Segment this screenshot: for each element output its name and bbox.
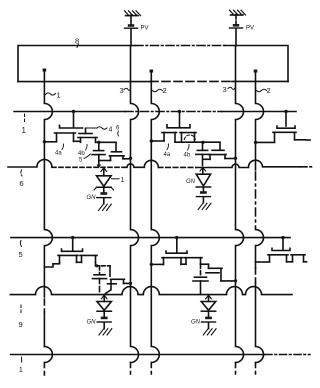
wire partial2 source to column 3 [256, 261, 270, 263]
label ~2 (column 2) [152, 86, 166, 95]
svg-text:6: 6 [116, 126, 120, 132]
ground cell1 [99, 204, 112, 210]
label 6 drive transistor leader cell1 [116, 126, 120, 137]
column PV1 wire [131, 46, 139, 375]
svg-text:5: 5 [79, 158, 83, 164]
column 3 wire [256, 71, 264, 374]
ground cell2 [198, 203, 211, 209]
capacitor cell3 [93, 266, 107, 292]
svg-text:GN: GN [87, 195, 97, 201]
capacitor cell4 [193, 264, 208, 294]
driver box 8 [18, 37, 288, 82]
svg-text:3: 3 [223, 85, 227, 94]
battery GN cell3 [87, 317, 112, 329]
wire node cell1 [96, 141, 117, 144]
transistor 4a partial2 [268, 248, 290, 261]
svg-text:4a: 4a [55, 151, 62, 157]
capacitor 5 cell1 [92, 142, 105, 168]
label 1 leader diode cell1 [112, 177, 125, 184]
wire 4a source to column 2 row2 [150, 263, 164, 266]
wire 4a source to column 2 [150, 139, 164, 142]
svg-text:5: 5 [19, 250, 23, 259]
svg-text:GN: GN [186, 179, 196, 185]
ground cell4 [203, 329, 216, 335]
transistor 4b partial2 [287, 255, 309, 262]
label 4a cell1 [55, 144, 64, 157]
label 3~ (column PV1) [120, 86, 131, 95]
node column 1 top terminal [43, 69, 47, 72]
battery GN cell4 [191, 317, 216, 329]
label 1 (bottom row) [19, 357, 23, 374]
wire 4a source to column 1 row2 [44, 262, 59, 267]
label ~2 (column 3) [257, 86, 271, 95]
transistor partial cell row1 [273, 126, 313, 142]
svg-text:PV: PV [141, 26, 149, 32]
diode cell3 (EL element) [97, 295, 111, 316]
drive transistor cell3 [106, 266, 133, 294]
transistor 4b cell2 [180, 133, 196, 143]
svg-text:4b: 4b [184, 153, 191, 159]
label 4 leader cell1 [86, 127, 113, 134]
transistor 4b cell1 [74, 128, 98, 142]
label 4b cell1 [78, 145, 87, 158]
diode cell2 (EL element) [196, 168, 210, 192]
column PV2 wire [236, 46, 244, 375]
drive transistor cell2 [204, 143, 238, 160]
column 2 wire [151, 71, 159, 374]
svg-text:1: 1 [57, 91, 61, 100]
label ~1 (column 1) [46, 91, 61, 100]
battery GN cell1 [87, 192, 111, 204]
bottom row line [11, 354, 310, 356]
row line 9 [10, 287, 292, 295]
svg-text:1: 1 [19, 365, 23, 374]
wire partial1 source to column 3 [254, 141, 275, 144]
drive transistor cell1 [99, 142, 132, 160]
row line 1 [14, 111, 296, 113]
transistor 4a cell4 [162, 251, 187, 264]
label 4a cell2 [164, 144, 171, 158]
diode cell4 (EL element) [201, 295, 215, 316]
svg-text:9: 9 [19, 320, 23, 329]
svg-text:1: 1 [22, 126, 27, 135]
label 5 (row 5) [19, 241, 23, 260]
transistor 4b cell4 [181, 258, 202, 265]
row line 6 [8, 160, 314, 168]
ground cell3 [99, 329, 112, 335]
svg-text:4: 4 [109, 127, 113, 134]
svg-text:3: 3 [120, 86, 124, 95]
svg-text:6: 6 [20, 179, 24, 188]
node gate feed partial2 [281, 236, 284, 250]
svg-text:2: 2 [163, 86, 167, 95]
wire node cell3 [95, 262, 110, 267]
svg-text:2: 2 [267, 86, 271, 95]
node column 2 top terminal [150, 70, 154, 73]
transistor 4b cell3 [77, 255, 98, 262]
label 5 cell1 [79, 154, 91, 164]
capacitor cell2 [196, 143, 209, 166]
column 1 wire [44, 70, 52, 375]
label 9 (row 9) [19, 305, 23, 329]
transistor 4a cell2 [162, 125, 190, 142]
transistor 4a cell1 [55, 125, 83, 141]
svg-text:PV: PV [246, 26, 254, 32]
node gate feed cell4 [175, 236, 178, 252]
battery GN cell2 [186, 179, 210, 203]
power rail hatch PV1 [125, 11, 141, 16]
wire 4a source to column 1 [43, 140, 57, 143]
node gate feed cell1 [72, 110, 75, 127]
battery PV2 [230, 15, 255, 46]
svg-text:4b: 4b [78, 151, 85, 157]
svg-text:GN: GN [87, 320, 97, 326]
wire node cell4 [201, 263, 209, 265]
node gate feed cell2 [178, 110, 181, 127]
transistor 4a cell3 [58, 249, 83, 262]
wire node cell2 [175, 141, 220, 144]
node gate feed cell3 [71, 236, 74, 250]
svg-text:1: 1 [121, 177, 125, 184]
power rail hatch PV2 [230, 10, 246, 15]
label 3~ (column PV2) [223, 85, 236, 94]
row line 5 [11, 237, 290, 239]
node column 3 top terminal [254, 70, 258, 73]
battery PV1 [125, 15, 149, 46]
svg-text:GN: GN [191, 320, 201, 326]
svg-text:4a: 4a [164, 152, 171, 158]
label 1 (row 1) [22, 114, 27, 135]
drive transistor cell4 [206, 264, 237, 282]
diode 1 cell1 (EL element) [94, 168, 114, 192]
label 6 (row 6) [20, 170, 24, 188]
node gate feed partial1 [284, 110, 287, 126]
label 4b cell2 [184, 145, 191, 159]
